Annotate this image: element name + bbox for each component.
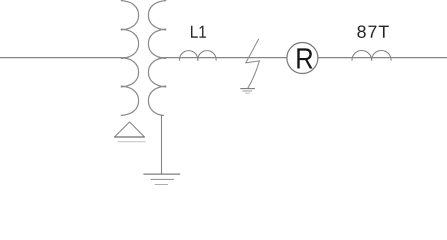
transformer T1 primary winding (left) bbox=[121, 1, 139, 116]
wire ground lead bbox=[161, 115, 163, 174]
faint underline below delta bbox=[118, 141, 146, 143]
label 87T bbox=[357, 25, 388, 38]
relay R circle bbox=[287, 43, 318, 74]
inductor L1 bbox=[179, 51, 216, 61]
fault bolt bbox=[246, 39, 260, 89]
relay R letter bbox=[297, 48, 312, 68]
label L1 bbox=[191, 26, 206, 38]
wire bus middle segment (transformer to relay) bbox=[159, 57, 287, 59]
transformer T1 secondary winding (right) bbox=[148, 1, 166, 116]
inductor 87T bbox=[352, 50, 391, 60]
fault ground marks bbox=[240, 89, 255, 94]
wire bus right segment (relay to edge) bbox=[318, 57, 447, 59]
wire bus left segment bbox=[0, 57, 128, 59]
delta winding symbol bbox=[114, 122, 145, 137]
ground bbox=[143, 174, 180, 184]
